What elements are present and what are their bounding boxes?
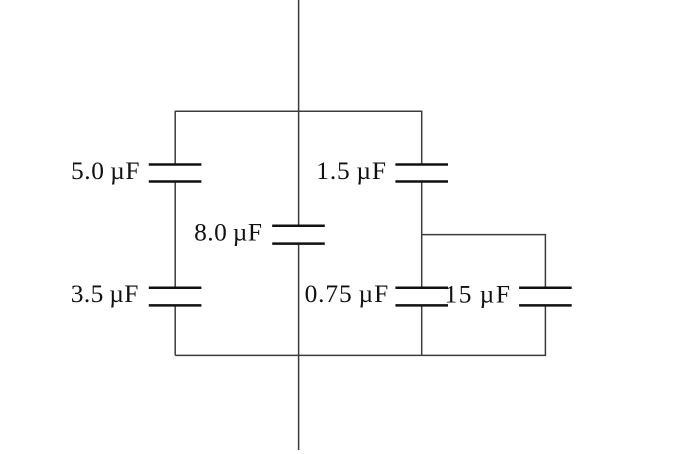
wire right edge middle xyxy=(421,182,423,288)
wire bottom feed xyxy=(298,244,300,450)
wire box bottom edge xyxy=(175,354,545,356)
wire sub-branch horizontal xyxy=(422,234,546,236)
svg-text:5.0 µF: 5.0 µF xyxy=(71,157,140,185)
wire left edge lower xyxy=(174,305,176,355)
wire right edge upper xyxy=(421,111,423,165)
svg-text:0.75 µF: 0.75 µF xyxy=(305,280,389,308)
capacitor 1.5uF plates xyxy=(395,165,448,182)
capacitor 8.0uF plates xyxy=(272,226,325,244)
svg-text:15 µF: 15 µF xyxy=(445,280,511,308)
capacitor 3.5uF plates xyxy=(149,288,202,306)
capacitor 0.75uF plates xyxy=(395,288,448,306)
capacitor 15uF plates xyxy=(519,288,572,306)
svg-text:3.5 µF: 3.5 µF xyxy=(71,280,139,308)
wire sub-branch vertical upper xyxy=(544,234,546,288)
wire left edge middle xyxy=(174,182,176,288)
wire right edge lower xyxy=(421,305,423,355)
svg-text:8.0 µF: 8.0 µF xyxy=(194,218,262,246)
capacitor 5.0uF plates xyxy=(149,165,202,182)
svg-text:1.5 µF: 1.5 µF xyxy=(316,157,386,185)
wire box top edge xyxy=(175,110,422,112)
wire top feed xyxy=(298,0,300,226)
wire left edge upper xyxy=(174,111,176,165)
wire sub-branch vertical lower xyxy=(544,305,546,356)
